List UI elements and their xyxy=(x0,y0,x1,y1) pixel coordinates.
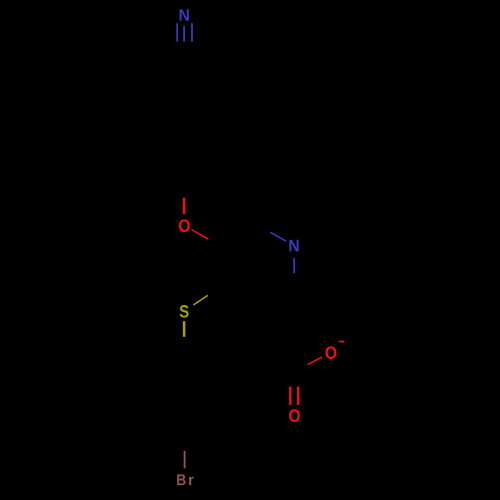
pyridine N-C2 bond (N half, blue, diagonal) xyxy=(270,232,286,241)
thioether S label xyxy=(180,305,189,318)
ether O label xyxy=(179,219,190,232)
ether O to benzyl C bond (O half, red, vertical) xyxy=(183,198,186,214)
C-Br bond (Br half, brown, vertical) xyxy=(184,451,186,469)
nitrile triple bond (N half, blue) xyxy=(177,23,192,41)
Br label (r) xyxy=(189,477,194,485)
nitrile N label xyxy=(180,9,189,21)
thioether S-C bond (S half, olive, diagonal) xyxy=(193,295,207,305)
thioether S to bromophenyl C bond (S half, olive, vertical) xyxy=(183,321,186,337)
carboxylate O(-) label xyxy=(325,346,336,359)
pyridine N-C6 bond (N half, blue, vertical) xyxy=(293,258,295,273)
carboxylate C-O(-) bond (O half, red, diagonal) xyxy=(308,357,323,365)
carbonyl C=O double bond (O half, red, two verticals) xyxy=(290,387,298,405)
carboxylate minus charge xyxy=(339,341,345,343)
carbonyl O label xyxy=(289,409,300,422)
ether O to pyridine C3 bond (O half, red, diagonal) xyxy=(192,230,209,240)
Br label (B) xyxy=(177,474,185,485)
pyridine N label xyxy=(289,240,298,252)
